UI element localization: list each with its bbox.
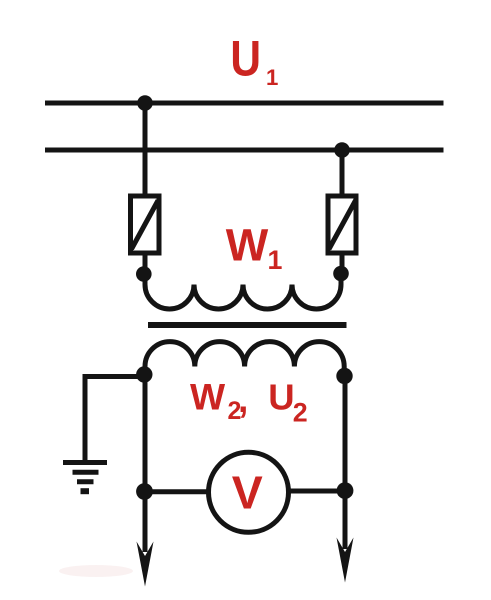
arrow: left output lead: [137, 542, 154, 587]
wire: fuse F2 to primary terminal: [340, 253, 345, 274]
ground symbol: [63, 463, 107, 492]
label U1: [230, 30, 278, 90]
secondary winding W2 (4 arcs bumping up): [145, 342, 344, 372]
bus line L1 (upper supply line): [45, 101, 444, 106]
svg-text:U: U: [268, 376, 294, 417]
wire: right drop from L2 to fuse F2: [340, 150, 345, 196]
label W2, U2: [190, 375, 308, 427]
svg-text:1: 1: [266, 65, 278, 90]
ground wire (vertical down): [83, 374, 88, 462]
arrow: right output lead: [337, 538, 354, 583]
wire: voltmeter right to right lead: [288, 489, 345, 494]
svg-text:W: W: [190, 375, 226, 417]
fuse F2 (right fuse-disconnector): [328, 196, 356, 253]
faint watermark smudge: [59, 565, 133, 577]
wire: junction to voltmeter left: [145, 489, 212, 494]
wire: secondary left lead down: [143, 375, 148, 552]
svg-text:,: ,: [238, 378, 248, 420]
svg-text:V: V: [232, 467, 263, 519]
node: primary right terminal: [333, 266, 349, 282]
node on L1 (left tap junction): [137, 95, 153, 111]
bus line L2 (lower supply line): [45, 148, 444, 153]
ground wire (horizontal from secondary left terminal): [85, 374, 144, 379]
svg-text:1: 1: [268, 245, 283, 275]
node: secondary left terminal: [136, 366, 152, 382]
primary winding W1 (4 arcs dipping down): [145, 279, 341, 309]
wire: fuse F1 to primary terminal: [143, 253, 148, 274]
svg-text:U: U: [230, 30, 261, 86]
svg-text:W: W: [226, 220, 269, 271]
node: left junction to voltmeter: [136, 483, 153, 500]
wire: secondary right lead down: [343, 376, 348, 549]
node: right junction to voltmeter: [337, 482, 354, 499]
transformer core: [148, 322, 347, 328]
wire: left drop from L1 to fuse F1: [143, 103, 148, 196]
node: secondary right terminal: [336, 368, 352, 384]
fuse F1 (left fuse-disconnector): [131, 196, 160, 253]
label W1: [226, 220, 283, 275]
node: primary left terminal: [136, 266, 152, 282]
svg-text:2: 2: [293, 398, 308, 428]
node on L2 (right tap junction): [334, 142, 350, 158]
voltmeter V (circle): [209, 452, 289, 532]
